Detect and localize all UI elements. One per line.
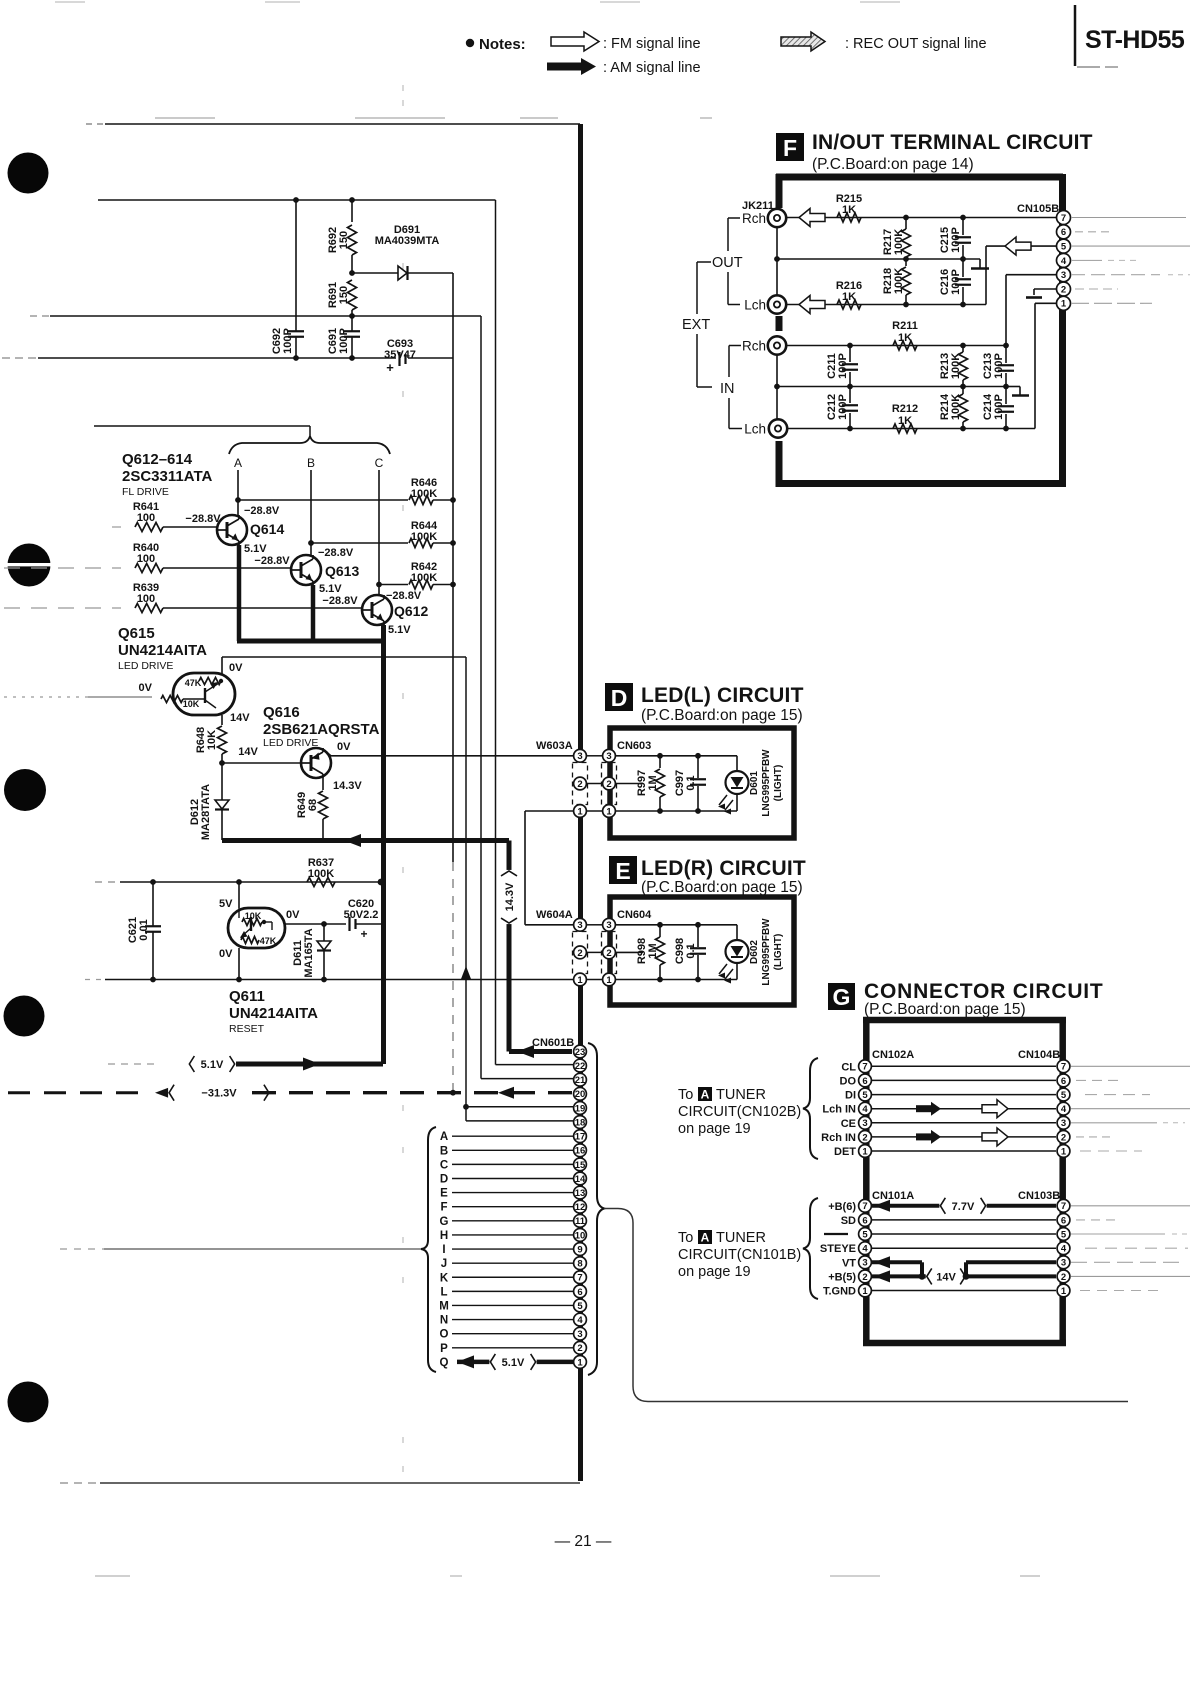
wire Lch OUT row: [786, 304, 986, 306]
svg-text:0.01: 0.01: [138, 919, 150, 940]
svg-text:100P: 100P: [837, 394, 849, 420]
svg-text:I: I: [442, 1244, 445, 1256]
wire Rch OUT column: [776, 227, 778, 296]
FM arrow on pin5 wire: [1005, 237, 1031, 255]
svg-text:3: 3: [1061, 270, 1066, 281]
jack JK211 Lch OUT: [768, 295, 786, 313]
svg-text:Q615: Q615: [118, 625, 155, 642]
model number ST-HD55: [1074, 5, 1077, 66]
svg-text:7: 7: [1061, 1062, 1066, 1073]
svg-text:2: 2: [577, 948, 582, 959]
svg-text:E: E: [440, 1188, 448, 1200]
svg-text:on page 19: on page 19: [678, 1121, 751, 1137]
svg-text:G: G: [833, 984, 851, 1010]
svg-text:C: C: [375, 456, 384, 470]
svg-text:ST-HD55: ST-HD55: [1085, 26, 1185, 54]
LED L circuit border box: [610, 728, 794, 838]
wire stubs right of CN105B: [1071, 217, 1186, 219]
LED D601: [736, 756, 738, 771]
node D wire to CN601B pin 14: [452, 1177, 573, 1179]
connector CN101A pins: [859, 1199, 872, 1212]
LED R circuit border box: [610, 897, 794, 1005]
svg-text:: REC OUT signal line: : REC OUT signal line: [845, 36, 987, 52]
svg-text:7: 7: [862, 1201, 867, 1212]
svg-text:C: C: [440, 1159, 448, 1171]
node J wire to CN601B pin 8: [452, 1262, 573, 1264]
resistor R649: [322, 778, 324, 790]
resistor R211: [893, 341, 917, 350]
svg-text:To: To: [678, 1230, 693, 1246]
voltage callout 14.3V: [500, 870, 518, 924]
brace right of CN601B: [588, 1043, 604, 1375]
capacitor C212: [849, 387, 851, 404]
svg-text:5: 5: [862, 1090, 868, 1101]
svg-text:+B(6): +B(6): [828, 1201, 856, 1213]
ground tap IN: [1006, 386, 1020, 388]
svg-text:Q616: Q616: [263, 704, 300, 721]
svg-text:CN105B: CN105B: [1017, 203, 1059, 215]
svg-text:2SB621AQRSTA: 2SB621AQRSTA: [263, 721, 380, 738]
svg-text:12: 12: [575, 1202, 586, 1213]
svg-text:6: 6: [1061, 1076, 1066, 1087]
wire -31.3V dashed to pin20: [252, 1091, 572, 1094]
svg-text:0V: 0V: [139, 682, 153, 694]
svg-text:7: 7: [862, 1062, 867, 1073]
svg-text:MA165TA: MA165TA: [303, 928, 315, 977]
svg-text:TUNER: TUNER: [716, 1087, 766, 1103]
wire mid OUT row: [777, 258, 980, 260]
svg-text:6: 6: [577, 1287, 582, 1298]
capacitor C997: [697, 756, 699, 778]
wire C693 rail: [2, 357, 38, 359]
svg-text:7: 7: [1061, 213, 1066, 224]
wire CE row: [872, 1122, 1056, 1124]
svg-text:F: F: [783, 135, 797, 161]
svg-text:LED(L) CIRCUIT: LED(L) CIRCUIT: [641, 684, 804, 707]
svg-text:on page 19: on page 19: [678, 1264, 751, 1280]
FM arrow on Lch OUT: [799, 296, 825, 314]
svg-text:LNG995PFBW: LNG995PFBW: [761, 749, 772, 817]
brace tuner CN102B: [803, 1058, 818, 1159]
svg-text:14V: 14V: [238, 746, 258, 758]
binder hole 5: [8, 1382, 49, 1423]
capacitor C998: [697, 925, 699, 947]
F circuit border box: [776, 174, 1063, 181]
wire CN604 pin1 row: [615, 979, 737, 981]
svg-text:(P.C.Board:on page 15): (P.C.Board:on page 15): [641, 707, 803, 724]
svg-text:CN604: CN604: [617, 909, 652, 921]
connector CN105B pins: [1057, 211, 1071, 225]
resistor R216: [837, 300, 861, 309]
section D header: [605, 683, 633, 711]
brace tuner CN101B: [803, 1198, 818, 1299]
wire CN601B group to connector circuit: [604, 1209, 1128, 1402]
brace over A B C columns: [229, 436, 390, 454]
svg-text:4: 4: [862, 1244, 868, 1255]
wire top rail to bus: [86, 123, 105, 125]
svg-text:Lch: Lch: [744, 298, 766, 313]
svg-text:0V: 0V: [337, 741, 351, 753]
connector W603A-CN603 dashed link: [573, 763, 588, 805]
svg-text:— 21 —: — 21 —: [555, 1533, 612, 1550]
AM arrow on 5.1V feed: [303, 1058, 320, 1071]
wire Rch IN row: [872, 1136, 1056, 1138]
capacitor C692: [295, 200, 297, 331]
wire CN601B pin22 row: [496, 1064, 574, 1066]
resistor R642: [379, 584, 408, 586]
svg-text:3: 3: [1061, 1258, 1066, 1269]
svg-text:5: 5: [1061, 242, 1067, 253]
svg-text:RESET: RESET: [229, 1023, 265, 1035]
svg-text:Q613: Q613: [325, 563, 359, 579]
svg-text:CIRCUIT(CN101B): CIRCUIT(CN101B): [678, 1247, 801, 1263]
svg-text:3: 3: [862, 1118, 867, 1129]
node K wire to CN601B pin 7: [452, 1276, 573, 1278]
jack JK211 Rch OUT: [768, 209, 786, 227]
svg-text:CN601B: CN601B: [532, 1037, 574, 1049]
svg-text:100P: 100P: [837, 353, 849, 379]
wire CN601B pin21 row: [481, 1078, 573, 1080]
wire FL emitter bus: [237, 639, 383, 644]
svg-text:E: E: [615, 858, 630, 884]
svg-text:10K: 10K: [206, 730, 218, 750]
wire W604A pin1 rail: [85, 979, 105, 981]
svg-text:14.3V: 14.3V: [504, 882, 516, 911]
svg-text:Q614: Q614: [250, 521, 284, 537]
node O wire to CN601B pin 3: [452, 1333, 573, 1335]
wire +B(5) 14V row: [872, 1274, 1056, 1278]
svg-text:K: K: [440, 1272, 449, 1284]
svg-text:2: 2: [606, 948, 611, 959]
svg-text:68: 68: [307, 799, 319, 811]
capacitor C213: [1005, 346, 1007, 364]
svg-text:L: L: [440, 1286, 447, 1298]
transistor Q612: [362, 595, 392, 625]
svg-text:3: 3: [577, 920, 582, 931]
svg-text:18: 18: [575, 1117, 586, 1128]
wire Rch IN row: [787, 345, 1006, 347]
svg-text:11: 11: [575, 1216, 586, 1227]
svg-text:1K: 1K: [842, 291, 856, 303]
svg-text:3: 3: [862, 1258, 867, 1269]
svg-text:−28.8V: −28.8V: [244, 505, 280, 517]
wire Q611 output row: [284, 923, 346, 925]
AM arrow Lch IN: [916, 1105, 933, 1112]
svg-text:Rch: Rch: [742, 211, 766, 226]
svg-text:+: +: [360, 927, 367, 941]
svg-text:D: D: [611, 685, 628, 711]
svg-text:: FM signal line: : FM signal line: [603, 36, 701, 52]
AM signal line arrow symbol: [547, 63, 581, 71]
resistor R692: [351, 200, 353, 222]
svg-text:Q611: Q611: [229, 988, 265, 1005]
connector W604A-CN604 dashed link: [573, 932, 588, 974]
svg-text:8: 8: [577, 1259, 582, 1270]
svg-text:5V: 5V: [219, 898, 233, 910]
svg-text:Lch IN: Lch IN: [822, 1104, 856, 1116]
svg-text:47K: 47K: [185, 678, 202, 688]
svg-text:150: 150: [338, 286, 350, 304]
wire Rch OUT row: [786, 217, 1057, 219]
ground tap OUT: [979, 259, 981, 268]
svg-text:100K: 100K: [411, 531, 437, 543]
svg-text:1: 1: [1061, 1146, 1067, 1157]
brace left of A-Q: [421, 1127, 436, 1372]
wire stubs right of CN103B: [1071, 1205, 1190, 1207]
resistor R213: [962, 346, 964, 353]
svg-text:2: 2: [1061, 1272, 1066, 1283]
wire C691 vertical to CN601B pin21: [480, 316, 482, 1079]
AM arrow on 14.3V row: [344, 834, 361, 847]
svg-text:CN102A: CN102A: [872, 1049, 914, 1061]
svg-text:150: 150: [338, 231, 350, 249]
AM arrow into pin23: [517, 1045, 534, 1058]
wire Lch IN row: [788, 428, 1035, 430]
FM signal line arrow symbol: [551, 32, 599, 51]
svg-text:Notes:: Notes:: [479, 36, 526, 53]
transistor network Q615: [173, 673, 235, 715]
svg-text:0.1: 0.1: [685, 775, 697, 790]
svg-text:10K: 10K: [183, 699, 200, 709]
svg-text:+B(5): +B(5): [828, 1271, 856, 1283]
svg-text:1: 1: [1061, 1286, 1067, 1297]
svg-text:(P.C.Board:on page 15): (P.C.Board:on page 15): [864, 1001, 1026, 1018]
svg-text:0V: 0V: [229, 662, 243, 674]
svg-text:100P: 100P: [338, 328, 350, 354]
svg-text:CN101A: CN101A: [872, 1190, 914, 1202]
wire R69x vertical to CN601B pin22: [495, 200, 497, 1065]
svg-text:2SC3311ATA: 2SC3311ATA: [122, 468, 212, 485]
svg-text:3: 3: [606, 751, 611, 762]
wire 14.3V feed row: [222, 838, 509, 843]
svg-text:22: 22: [575, 1061, 586, 1072]
wire Lch IN row: [872, 1108, 1056, 1110]
resistor R997: [659, 756, 661, 768]
svg-text:19: 19: [575, 1103, 586, 1114]
svg-text:F: F: [440, 1202, 447, 1214]
svg-text:CN104B: CN104B: [1018, 1049, 1060, 1061]
svg-text:5.1V: 5.1V: [319, 583, 342, 595]
wire DET row: [872, 1150, 1056, 1152]
AM arrow Rch IN: [916, 1133, 933, 1140]
capacitor C211: [849, 346, 851, 363]
svg-text:100P: 100P: [993, 394, 1005, 420]
svg-text:Lch: Lch: [744, 422, 766, 437]
svg-text:−28.8V: −28.8V: [318, 547, 354, 559]
svg-text:B: B: [307, 456, 315, 470]
svg-text:VT: VT: [842, 1257, 856, 1269]
svg-text:G: G: [440, 1216, 449, 1228]
svg-text:W603A: W603A: [536, 740, 573, 752]
wire mid IN row: [777, 386, 1006, 388]
wire CN603 pin1 row: [615, 810, 737, 812]
svg-text:B: B: [440, 1145, 448, 1157]
wire vertical node D691-C693 to R64x to pin20: [452, 273, 454, 862]
svg-text:1K: 1K: [898, 332, 912, 344]
wire Q612 emitter bus down: [381, 625, 386, 1064]
binder hole 1: [8, 153, 49, 194]
svg-text:+: +: [386, 360, 394, 375]
wire NC row: [872, 1233, 1056, 1235]
svg-text:CE: CE: [841, 1118, 856, 1130]
wire CN604 pin3 row: [615, 924, 737, 926]
svg-text:DET: DET: [834, 1146, 856, 1158]
wire 5.1V feed: [236, 1062, 383, 1067]
wire Q616 emitter to W603A pin3: [323, 749, 331, 756]
capacitor C215: [962, 218, 964, 236]
section E header: [609, 856, 637, 884]
wire column A: [237, 470, 239, 516]
svg-text:1: 1: [606, 806, 612, 817]
svg-text:14V: 14V: [230, 712, 250, 724]
svg-text:CN603: CN603: [617, 740, 651, 752]
voltage callout -31.3V: [168, 1084, 270, 1102]
svg-text:J: J: [441, 1258, 447, 1270]
svg-text:5: 5: [1061, 1229, 1067, 1240]
svg-text:MA28TATA: MA28TATA: [200, 784, 212, 840]
wire bottom rail: [60, 1482, 100, 1484]
diode D611: [323, 924, 325, 942]
capacitor C214: [1005, 387, 1007, 405]
node P wire to CN601B pin 2: [452, 1347, 573, 1349]
svg-text:7: 7: [577, 1273, 582, 1284]
main vertical bus: [578, 124, 583, 749]
svg-text:EXT: EXT: [682, 317, 710, 333]
svg-text:1K: 1K: [842, 204, 856, 216]
binder hole 3: [4, 769, 46, 811]
wire CN105B pin1 to Lch IN row: [1035, 302, 1057, 304]
wire T.GND row: [872, 1290, 1056, 1292]
svg-text:A: A: [234, 456, 242, 470]
svg-text:4: 4: [1061, 1104, 1067, 1115]
svg-text:MA4039MTA: MA4039MTA: [375, 235, 440, 247]
wire STEYE row: [872, 1247, 1056, 1249]
svg-text:DO: DO: [840, 1075, 857, 1087]
svg-text:FL DRIVE: FL DRIVE: [122, 486, 169, 498]
resistor R217: [905, 218, 907, 230]
svg-text:5.1V: 5.1V: [388, 624, 411, 636]
wire 14.3V vertical to CN601B pin23: [507, 841, 512, 1052]
node E wire to CN601B pin 13: [452, 1192, 573, 1194]
svg-text:100K: 100K: [411, 572, 437, 584]
svg-text:Rch IN: Rch IN: [821, 1132, 856, 1144]
wire W603A pin1 to W604A pin3: [525, 810, 574, 812]
resistor R218: [905, 259, 907, 266]
svg-text:21: 21: [575, 1075, 586, 1086]
node L wire to CN601B pin 6: [452, 1290, 573, 1292]
IN bracket: [729, 345, 741, 347]
svg-text:−28.8V: −28.8V: [322, 595, 358, 607]
wire C691 rail: [30, 315, 50, 317]
svg-text:STEYE: STEYE: [820, 1243, 856, 1255]
svg-text:4: 4: [1061, 1244, 1067, 1255]
node G wire to CN601B pin 11: [452, 1220, 573, 1222]
wire +B(6) 7.7V row: [872, 1204, 1056, 1208]
wire CN603 pin3 row: [615, 755, 737, 757]
svg-text:1: 1: [862, 1286, 868, 1297]
svg-text:D: D: [440, 1173, 448, 1185]
svg-text:4: 4: [577, 1315, 583, 1326]
transistor Q616: [301, 748, 331, 778]
node N wire to CN601B pin 4: [452, 1319, 573, 1321]
svg-text:10: 10: [575, 1230, 586, 1241]
wire column B: [310, 470, 312, 556]
connector CN102A pins: [859, 1060, 872, 1073]
transistor Q613: [291, 555, 321, 585]
wire CN105B pin2 stub: [1034, 288, 1057, 290]
resistor R637: [307, 878, 335, 887]
page fold marks: [402, 85, 404, 91]
svg-text:100K: 100K: [950, 353, 962, 379]
connector CN604 pins: [603, 918, 616, 931]
FM arrow on Rch OUT: [799, 209, 825, 227]
svg-text:2: 2: [577, 1343, 582, 1354]
section G header: [828, 983, 855, 1010]
svg-text:5.1V: 5.1V: [201, 1059, 224, 1071]
svg-text:4: 4: [1061, 256, 1067, 267]
svg-text:Q612–614: Q612–614: [122, 451, 193, 468]
svg-text:D602: D602: [749, 940, 760, 964]
wire stubs right of CN104B: [1071, 1065, 1190, 1067]
svg-text:100K: 100K: [411, 488, 437, 500]
svg-text:CN103B: CN103B: [1018, 1190, 1060, 1202]
wire select rail to brace: [60, 1248, 104, 1250]
wire FL grid rail: [94, 425, 310, 427]
voltage callout 5.1V on Q row: [489, 1353, 536, 1371]
connector W603A pins: [574, 749, 587, 762]
connector W604A pins: [574, 918, 587, 931]
node F wire to CN601B pin 12: [452, 1206, 573, 1208]
wire -31.3V dashed rail: [8, 1091, 148, 1094]
binder hole 2: [8, 544, 51, 587]
wire Q611 collector down: [238, 948, 240, 980]
svg-text:3: 3: [577, 1329, 582, 1340]
svg-text:6: 6: [1061, 1215, 1066, 1226]
EXT bracket: [697, 261, 711, 263]
svg-text:47K: 47K: [260, 936, 277, 946]
wire Rch IN column: [776, 355, 778, 419]
svg-text:M: M: [439, 1300, 449, 1312]
wire DI row: [872, 1094, 1056, 1096]
svg-text:(LIGHT): (LIGHT): [773, 934, 784, 971]
wire SD row: [872, 1219, 1056, 1221]
svg-text:1: 1: [577, 975, 583, 986]
svg-text:P: P: [440, 1343, 448, 1355]
svg-text:100K: 100K: [893, 229, 905, 255]
svg-text:3: 3: [1061, 1118, 1066, 1129]
svg-text:14.3V: 14.3V: [333, 780, 362, 792]
svg-text:: AM signal line: : AM signal line: [603, 60, 701, 76]
connector circuit border box: [863, 1017, 1066, 1024]
svg-text:N: N: [440, 1315, 448, 1327]
node B wire to CN601B pin 16: [452, 1149, 573, 1151]
svg-text:2: 2: [862, 1272, 867, 1283]
wire CN603 pin2 stub: [615, 783, 643, 785]
diode D691: [352, 272, 398, 274]
svg-text:100P: 100P: [950, 269, 962, 295]
svg-text:UN4214AITA: UN4214AITA: [229, 1005, 318, 1022]
svg-text:6: 6: [862, 1215, 867, 1226]
voltage callout 5.1V left: [108, 1063, 160, 1065]
svg-text:5.1V: 5.1V: [502, 1357, 525, 1369]
connector CN103B pins: [1057, 1199, 1070, 1212]
svg-text:A: A: [701, 1088, 710, 1102]
wire column C: [378, 470, 380, 596]
resistor R214: [962, 387, 964, 395]
resistor R212: [893, 424, 917, 433]
svg-text:100P: 100P: [282, 328, 294, 354]
resistor R646: [238, 499, 408, 501]
